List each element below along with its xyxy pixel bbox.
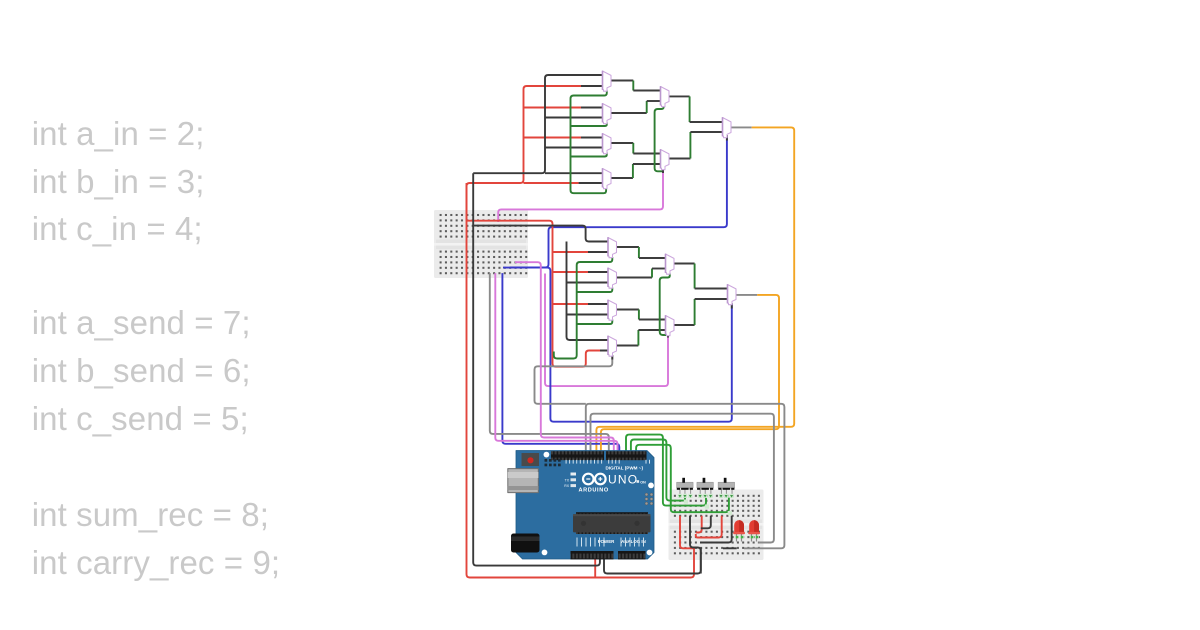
wire violet V1 gate F bottom to BB1	[498, 171, 663, 222]
logic gate B	[603, 103, 612, 124]
wire black long GND rail	[473, 173, 600, 565]
logic gate E (top cluster, col 2)	[661, 86, 670, 107]
wire black stubs into gates H-K	[588, 252, 608, 351]
wire gray GR2 pin around right to BB2 inner	[591, 414, 774, 543]
wire black branch gate C	[545, 147, 603, 149]
code line 6	[32, 400, 249, 438]
wire gray gate G output stub	[731, 126, 752, 128]
wire red branch gate H	[553, 251, 589, 253]
wire black stubs into gates A-D	[579, 86, 603, 183]
wire black bus top cluster	[473, 75, 602, 173]
power jack	[511, 534, 540, 553]
svg-text:RX: RX	[564, 484, 569, 488]
wire red bus top cluster	[467, 86, 582, 221]
logic gate F	[661, 149, 670, 170]
wire gate H out to L in1	[617, 246, 639, 248]
wire violet V2 gate M bottom left	[545, 274, 668, 387]
digital header strip 1	[551, 451, 604, 460]
wire blue B1 gate G bottom to pin	[510, 137, 727, 268]
logic gate I	[608, 268, 617, 289]
wire black BB2 chain 2	[701, 516, 711, 529]
wire black bus lower cluster	[567, 242, 609, 341]
logic gate A (top cluster, col 1)	[603, 71, 612, 92]
wire red BB2 chain 2	[696, 516, 702, 533]
USB port	[508, 469, 539, 493]
wire green branch gate B bottom	[571, 123, 607, 127]
wire black branch gate J	[567, 314, 609, 316]
svg-text:POWER: POWER	[598, 539, 615, 544]
wire green branch gate J bottom	[577, 320, 613, 325]
Arduino Uno board	[508, 451, 654, 560]
wire black BB2 LED link	[723, 547, 737, 549]
wire black row BB1 to gate H	[473, 226, 608, 242]
slide switch SW2	[697, 478, 714, 496]
code line 4	[32, 304, 251, 342]
wire gate K out to M in2	[617, 345, 639, 347]
logic gate N (lower cluster output)	[728, 284, 737, 305]
slide switch SW3	[718, 478, 735, 496]
wire gate J out to M in1	[617, 309, 639, 311]
wire violet V4 BB1 bottom to pin	[495, 273, 617, 453]
wire gate L out to N in1	[674, 263, 695, 265]
wire violet V3 BB1 row to pin	[515, 262, 614, 453]
wire green gate L bottom junction	[660, 274, 670, 336]
svg-text:DIGITAL (PWM ~): DIGITAL (PWM ~)	[606, 466, 644, 471]
code line 5	[32, 352, 251, 390]
logic gate D	[603, 168, 612, 189]
logic gate G (top cluster output)	[723, 117, 732, 138]
logic gate K	[608, 336, 617, 357]
analog header	[618, 551, 646, 559]
wire orange O2 to Arduino pin	[601, 295, 779, 453]
wire gate B out to E in2	[611, 112, 647, 114]
power header	[571, 551, 614, 559]
wire black branch gate I	[567, 282, 609, 284]
logic gate J	[608, 300, 617, 321]
svg-text:TX: TX	[565, 478, 570, 482]
slide switch SW1	[677, 478, 694, 496]
wire black branch gate D	[545, 172, 603, 174]
wire red bus lower cluster	[466, 221, 602, 367]
wire blue B2 gate N bottom to BB1	[503, 268, 732, 422]
wire gray GR3 BB1 down to pin	[490, 273, 609, 453]
wire green bus lower cluster	[554, 257, 613, 359]
logic gate C	[603, 133, 612, 154]
code line 2	[32, 163, 205, 201]
wire red BB2 chain 3	[696, 516, 722, 538]
wire red riser 5V pin	[594, 554, 596, 578]
breadboard BB2 (mini breadboard, bottom right)	[669, 490, 764, 561]
wire orange O1 to Arduino pin	[596, 127, 794, 453]
LED D1 (red)	[733, 520, 745, 541]
wire red branch to gate C	[524, 137, 582, 139]
wire black GND2 to BB2	[604, 548, 701, 574]
logic gate H (lower cluster, col 1)	[608, 237, 617, 258]
wire red branch to gate B	[524, 107, 582, 109]
wire gate E out to G in1	[669, 95, 690, 97]
svg-text:ANALOG IN: ANALOG IN	[621, 539, 646, 544]
wire blue A: BB1 down to Arduino pin 8	[502, 273, 619, 453]
wire green GN2 pin to switch column	[631, 440, 685, 501]
ICSP pads	[645, 493, 653, 505]
digital header strip 2	[606, 451, 647, 460]
wire black BB2 chain 3	[700, 516, 732, 543]
pin label marks top	[566, 460, 650, 464]
code line 3	[32, 210, 203, 248]
wire red BB2 chain 1	[680, 516, 694, 549]
indicator LEDs L TX RX	[564, 473, 576, 489]
wire green branch gate I bottom	[577, 288, 613, 293]
Arduino infinity logo	[583, 474, 594, 485]
wire red branch gate I	[553, 271, 589, 273]
svg-text:ARDUINO: ARDUINO	[579, 488, 609, 494]
wire red long power rail	[467, 183, 695, 578]
mounting holes	[544, 452, 550, 458]
board body	[516, 451, 654, 560]
gate bottom pin stubs	[612, 135, 732, 360]
code line 7	[32, 496, 269, 534]
wire red branch to gate D	[524, 182, 579, 184]
ON led	[637, 480, 640, 483]
wire gate A out to E in1	[611, 80, 633, 82]
code line 1	[32, 115, 205, 153]
wire green GN1 pin to switch column	[626, 435, 706, 506]
wire green bus top cluster	[571, 91, 607, 194]
wire green branch gate C bottom	[571, 153, 607, 157]
wire gate C out to F in1	[611, 142, 633, 144]
wire gate I out to L in2	[617, 277, 653, 279]
breadboard BB1 (mini breadboard, left)	[434, 210, 528, 278]
wire red branch gate J	[553, 303, 589, 305]
code line 8	[32, 544, 280, 582]
logic gate M	[666, 315, 675, 336]
microcontroller IC	[573, 512, 651, 534]
wire green gate E bottom junction	[655, 105, 664, 172]
wire black branch gate B	[545, 117, 603, 119]
green contact dots under switches	[678, 494, 734, 498]
wire gray GR1 pin around right to BB2	[586, 404, 785, 549]
wire gate D out to F in2	[611, 177, 633, 179]
wire black BB2 chain 1	[690, 516, 701, 574]
LED connection highlights	[684, 500, 759, 539]
svg-text:UNO: UNO	[608, 472, 638, 486]
wire gray gate N output stub	[736, 294, 757, 296]
svg-text:ON: ON	[640, 481, 646, 485]
logic gate L (lower cluster, col 2)	[666, 254, 675, 275]
wire gray G5 gate K bottom routed left	[535, 356, 613, 404]
LED D2 (red)	[748, 520, 760, 541]
reset button	[522, 453, 540, 466]
wire gate F out to G in2	[668, 158, 690, 160]
wire gate M out to N in2	[674, 324, 695, 326]
wire green GN3 pin to switch column	[636, 445, 729, 512]
2x3 pad grid top-left	[545, 459, 561, 466]
